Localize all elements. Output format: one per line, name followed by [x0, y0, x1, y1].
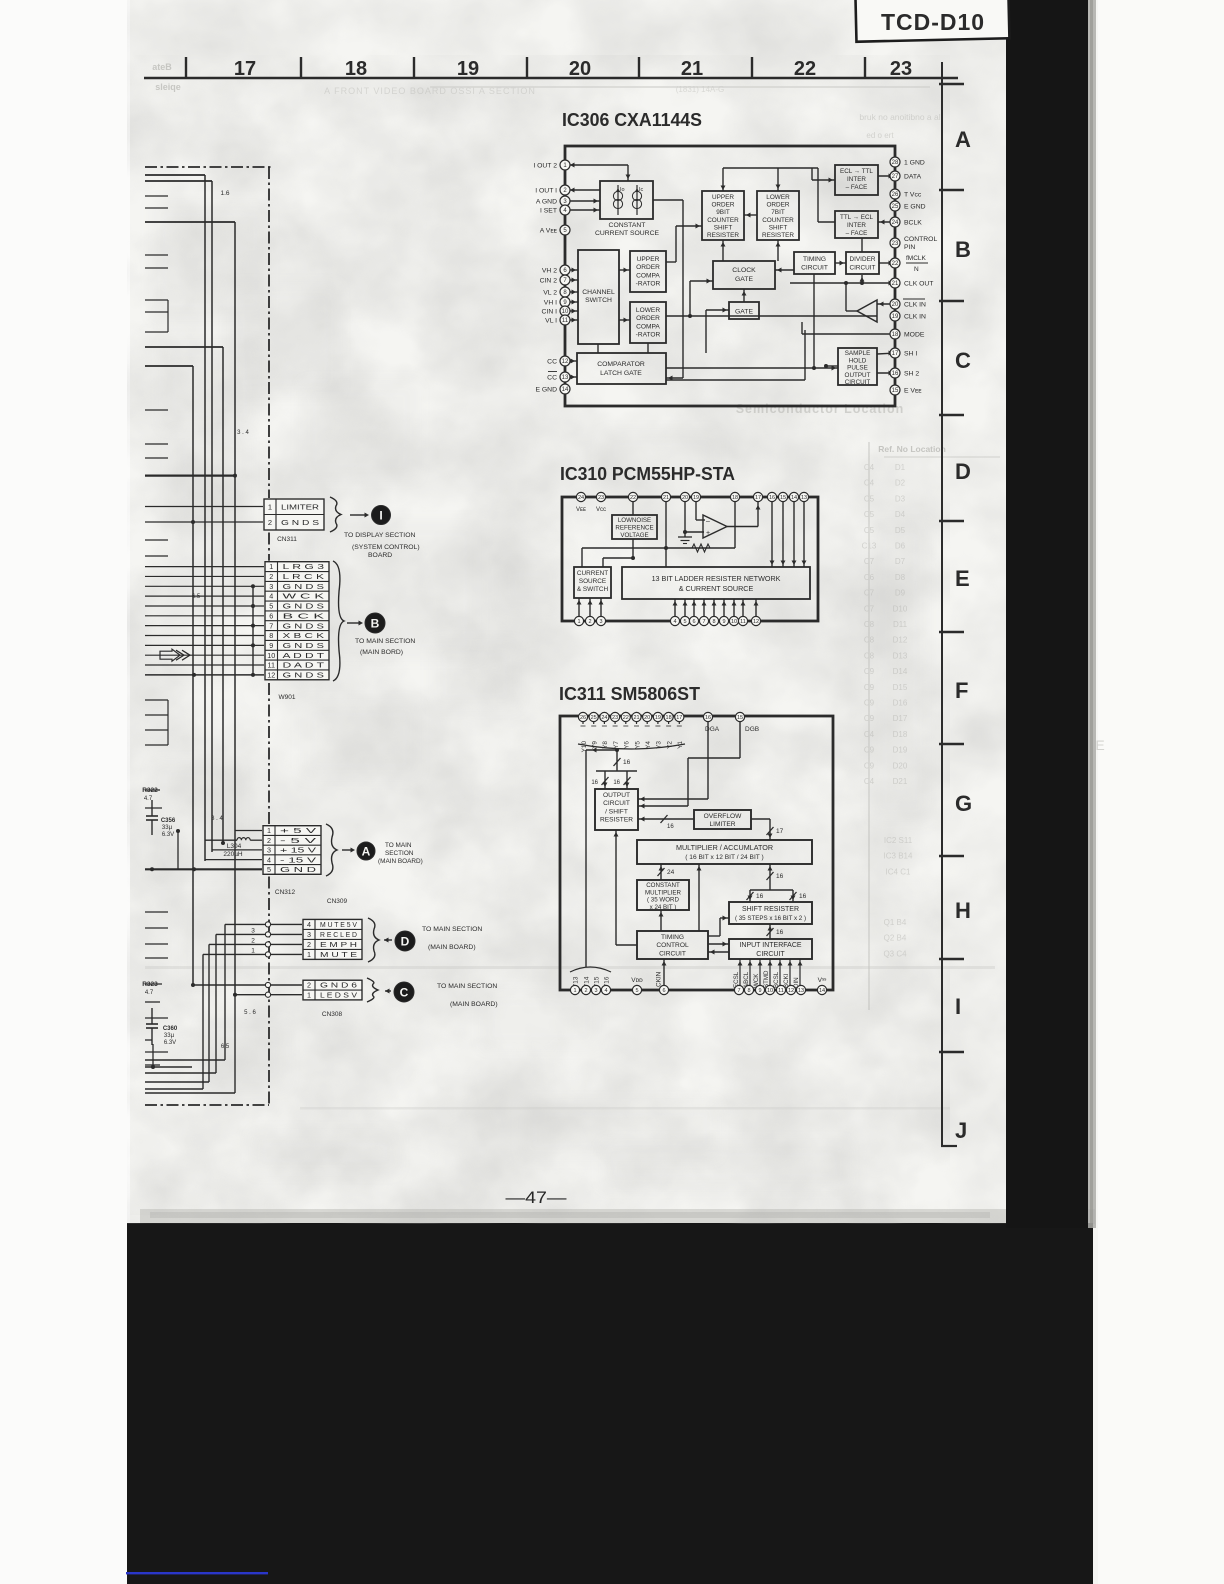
- svg-text:2: 2: [307, 981, 311, 990]
- svg-text:A D D T: A D D T: [283, 651, 326, 660]
- svg-text:J: J: [955, 1118, 967, 1143]
- svg-text:ECL → TTL: ECL → TTL: [840, 168, 873, 175]
- svg-text:1: 1: [269, 562, 273, 571]
- svg-text:16: 16: [776, 873, 784, 880]
- svg-text:TO DISPLAY SECTION: TO DISPLAY SECTION: [344, 532, 415, 539]
- svg-text:23: 23: [890, 58, 912, 80]
- svg-text:( 35 STEPS x 16 BIT x 2 ): ( 35 STEPS x 16 BIT x 2 ): [735, 915, 806, 922]
- svg-text:(MAIN BOARD): (MAIN BOARD): [450, 1001, 498, 1008]
- svg-text:3: 3: [269, 582, 273, 591]
- svg-text:14: 14: [562, 387, 569, 393]
- svg-text:+ 15 V: + 15 V: [280, 846, 316, 855]
- svg-text:G N D S: G N D S: [283, 602, 325, 611]
- svg-text:E M P H: E M P H: [320, 940, 357, 949]
- svg-text:CONSTANT: CONSTANT: [609, 222, 646, 229]
- svg-text:(SYSTEM CONTROL): (SYSTEM CONTROL): [352, 544, 420, 551]
- svg-text:1: 1: [573, 988, 576, 994]
- svg-text:Io: Io: [620, 187, 625, 193]
- svg-text:LIMITER: LIMITER: [281, 502, 320, 511]
- svg-text:L R G 3: L R G 3: [283, 562, 325, 571]
- svg-text:M U T E: M U T E: [320, 950, 357, 959]
- svg-text:CIRCUIT: CIRCUIT: [845, 379, 871, 386]
- svg-text:L304: L304: [227, 843, 242, 850]
- svg-text:H: H: [955, 898, 971, 923]
- svg-text:1: 1: [268, 502, 272, 511]
- svg-text:17: 17: [776, 828, 784, 835]
- svg-text:( 35 WORD: ( 35 WORD: [647, 897, 680, 904]
- svg-text:9: 9: [758, 988, 761, 994]
- svg-text:W901: W901: [279, 694, 296, 701]
- svg-text:23: 23: [612, 715, 618, 721]
- svg-text:TO MAIN SECTION: TO MAIN SECTION: [355, 638, 415, 645]
- svg-text:17: 17: [676, 715, 682, 721]
- svg-text:GATE: GATE: [735, 309, 753, 316]
- svg-text:& SWITCH: & SWITCH: [577, 586, 609, 593]
- svg-text:—47—: —47—: [506, 1188, 567, 1207]
- svg-text:G N D S: G N D S: [281, 518, 319, 527]
- svg-text:+: +: [706, 530, 710, 537]
- svg-text:REFERENCE: REFERENCE: [615, 524, 653, 531]
- svg-text:19: 19: [693, 495, 699, 501]
- svg-text:G N D S: G N D S: [283, 641, 325, 650]
- svg-text:10: 10: [731, 619, 737, 625]
- svg-text:16: 16: [776, 929, 784, 936]
- svg-text:10: 10: [562, 309, 569, 315]
- svg-text:G: G: [955, 791, 972, 816]
- svg-text:/ SHIFT: / SHIFT: [605, 808, 628, 815]
- svg-text:MODE: MODE: [904, 332, 925, 339]
- svg-text:( 16 BIT x 12 BIT / 24 BIT: ( 16 BIT x 12 BIT / 24 BIT ): [685, 854, 763, 861]
- svg-text:CKIN: CKIN: [656, 971, 663, 987]
- svg-text:13 BIT LADDER RESISTER NETW: 13 BIT LADDER RESISTER NETWORK: [652, 574, 781, 583]
- svg-text:20: 20: [644, 715, 650, 721]
- svg-text:1: 1: [307, 950, 311, 959]
- svg-text:Vˢˢ: Vˢˢ: [818, 977, 828, 984]
- svg-text:15: 15: [780, 495, 786, 501]
- svg-text:x 24 BIT ): x 24 BIT ): [650, 904, 677, 911]
- svg-text:23: 23: [892, 241, 899, 247]
- svg-text:9BIT: 9BIT: [716, 209, 730, 216]
- svg-text:3: 3: [307, 930, 311, 939]
- svg-text:I OUT I: I OUT I: [535, 188, 557, 195]
- svg-text:IC306 CXA1144S: IC306 CXA1144S: [562, 109, 702, 130]
- svg-text:LIMITER: LIMITER: [709, 821, 735, 828]
- svg-text:RESISTER: RESISTER: [762, 232, 794, 239]
- svg-text:DGA: DGA: [705, 726, 720, 733]
- svg-text:G N D 6: G N D 6: [320, 981, 357, 990]
- svg-text:18: 18: [345, 58, 367, 80]
- svg-text:SOURCE: SOURCE: [579, 578, 606, 585]
- svg-text:F: F: [955, 678, 968, 703]
- svg-text:3 . 4: 3 . 4: [237, 430, 249, 436]
- svg-text:CIRCUIT: CIRCUIT: [850, 265, 876, 272]
- svg-text:Vᴄᴄ: Vᴄᴄ: [596, 507, 606, 513]
- svg-text:G N D S: G N D S: [283, 670, 325, 679]
- svg-text:TO MAIN: TO MAIN: [385, 842, 412, 849]
- svg-text:16: 16: [667, 824, 674, 830]
- svg-text:11: 11: [740, 619, 746, 625]
- svg-text:24: 24: [892, 220, 899, 226]
- svg-text:9: 9: [722, 619, 725, 625]
- svg-text:9: 9: [269, 641, 273, 650]
- svg-text:24: 24: [601, 715, 607, 721]
- svg-text:3: 3: [599, 619, 602, 625]
- svg-text:14: 14: [791, 495, 797, 501]
- svg-text:SHIFT: SHIFT: [714, 224, 733, 231]
- svg-text:16: 16: [756, 893, 764, 900]
- svg-text:25: 25: [591, 715, 597, 721]
- svg-text:UPPER: UPPER: [637, 256, 660, 263]
- svg-text:N: N: [914, 266, 919, 273]
- svg-text:-RATOR: -RATOR: [636, 332, 661, 339]
- svg-text:11: 11: [268, 661, 275, 670]
- svg-text:Y4: Y4: [645, 741, 652, 749]
- svg-text:LATCH GATE: LATCH GATE: [600, 370, 642, 377]
- svg-text:E GND: E GND: [904, 204, 926, 211]
- svg-text:I SET: I SET: [540, 208, 557, 215]
- svg-text:COUNTER: COUNTER: [707, 217, 739, 224]
- svg-text:SAMPLE: SAMPLE: [845, 350, 871, 357]
- svg-text:8: 8: [747, 988, 750, 994]
- svg-text:1 GND: 1 GND: [904, 160, 925, 167]
- svg-text:E: E: [955, 566, 970, 591]
- svg-text:COUNTER: COUNTER: [762, 217, 794, 224]
- svg-text:16: 16: [613, 780, 620, 786]
- svg-text:UPPER: UPPER: [712, 194, 734, 201]
- svg-text:BCLK: BCLK: [904, 220, 922, 227]
- svg-text:27: 27: [892, 174, 899, 180]
- svg-text:BOARD: BOARD: [368, 552, 392, 559]
- svg-text:SECTION: SECTION: [385, 850, 414, 857]
- svg-text:33µ: 33µ: [164, 1033, 175, 1039]
- svg-text:6: 6: [269, 611, 273, 620]
- svg-text:ORDER: ORDER: [711, 202, 734, 209]
- svg-text:D A D T: D A D T: [283, 661, 326, 670]
- svg-text:20: 20: [569, 58, 591, 80]
- svg-text:X B C K: X B C K: [283, 631, 325, 640]
- svg-text:Y5: Y5: [634, 741, 641, 749]
- svg-text:OUTPUT: OUTPUT: [845, 372, 871, 379]
- svg-text:DATA: DATA: [904, 174, 922, 181]
- svg-text:E GND: E GND: [535, 387, 557, 394]
- svg-text:14: 14: [819, 988, 825, 994]
- svg-text:–: –: [706, 518, 710, 525]
- svg-text:Ic: Ic: [639, 187, 644, 193]
- svg-text:-RATOR: -RATOR: [636, 281, 661, 288]
- svg-text:VH 2: VH 2: [542, 268, 557, 275]
- svg-text:24: 24: [667, 869, 675, 876]
- svg-text:INTER: INTER: [847, 222, 866, 229]
- svg-text:12: 12: [267, 670, 275, 679]
- svg-text:17: 17: [755, 495, 761, 501]
- svg-text:3: 3: [251, 927, 255, 934]
- svg-text:18: 18: [732, 495, 738, 501]
- svg-text:1.6: 1.6: [220, 190, 229, 197]
- svg-text:SH 2: SH 2: [904, 371, 919, 378]
- svg-text:21: 21: [681, 58, 703, 80]
- svg-text:2: 2: [268, 518, 272, 527]
- svg-text:TO MAIN SECTION: TO MAIN SECTION: [437, 983, 497, 990]
- svg-text:CLOCK: CLOCK: [732, 267, 756, 274]
- svg-text:IC311 SM5806ST: IC311 SM5806ST: [559, 683, 701, 704]
- svg-text:(MAIN BOARD): (MAIN BOARD): [378, 858, 423, 865]
- svg-text:TIMING: TIMING: [661, 934, 684, 941]
- svg-text:22: 22: [794, 58, 816, 80]
- svg-text:7: 7: [737, 988, 740, 994]
- svg-text:3 . 4: 3 . 4: [211, 816, 223, 822]
- svg-text:INTER: INTER: [847, 176, 866, 183]
- svg-text:1: 1: [251, 947, 255, 954]
- svg-text:28: 28: [892, 160, 899, 166]
- svg-text:17: 17: [234, 58, 256, 80]
- svg-text:COMPARATOR: COMPARATOR: [597, 361, 645, 368]
- svg-text:16: 16: [799, 893, 807, 900]
- svg-text:10: 10: [767, 988, 773, 994]
- svg-text:15: 15: [737, 715, 743, 721]
- svg-text:G N D S: G N D S: [283, 621, 325, 630]
- svg-text:33µ: 33µ: [162, 825, 173, 831]
- svg-text:VOLTAGE: VOLTAGE: [620, 532, 648, 539]
- svg-text:CN312: CN312: [275, 889, 296, 896]
- svg-text:- 5 V: - 5 V: [280, 836, 316, 845]
- svg-text:10: 10: [267, 651, 275, 660]
- svg-text:15: 15: [892, 388, 899, 394]
- svg-text:CN311: CN311: [277, 536, 297, 543]
- svg-text:19: 19: [655, 715, 661, 721]
- svg-text:6: 6: [662, 988, 665, 994]
- svg-text:11: 11: [562, 318, 569, 324]
- svg-text:6.3V: 6.3V: [162, 832, 174, 838]
- svg-text:2: 2: [251, 937, 255, 944]
- svg-text:TIMING: TIMING: [803, 256, 826, 263]
- svg-text:11: 11: [778, 988, 784, 994]
- svg-text:VH I: VH I: [544, 300, 557, 307]
- svg-text:CONTROL: CONTROL: [656, 942, 689, 949]
- svg-text:RESISTER: RESISTER: [707, 232, 739, 239]
- svg-text:G N D: G N D: [280, 865, 316, 874]
- svg-text:(MAIN BORD): (MAIN BORD): [360, 649, 403, 656]
- svg-text:ORDER: ORDER: [636, 264, 660, 271]
- svg-text:TTL → ECL: TTL → ECL: [840, 214, 874, 221]
- svg-text:8: 8: [712, 619, 715, 625]
- svg-text:SH I: SH I: [904, 351, 917, 358]
- svg-text:6.5: 6.5: [221, 1044, 230, 1050]
- svg-text:CONTROL: CONTROL: [904, 236, 937, 243]
- svg-text:7BIT: 7BIT: [771, 209, 785, 216]
- svg-text:CURRENT: CURRENT: [577, 570, 608, 577]
- svg-text:2: 2: [588, 619, 591, 625]
- svg-text:RESISTER: RESISTER: [600, 817, 633, 824]
- svg-text:5: 5: [267, 865, 271, 874]
- svg-text:LOWNOISE: LOWNOISE: [618, 517, 651, 524]
- svg-text:2: 2: [584, 988, 587, 994]
- svg-text:16: 16: [705, 715, 711, 721]
- svg-text:E: E: [1095, 737, 1104, 753]
- svg-text:12: 12: [753, 619, 759, 625]
- svg-text:DGB: DGB: [745, 726, 759, 733]
- svg-text:2: 2: [307, 940, 311, 949]
- svg-text:INPUT INTERFACE: INPUT INTERFACE: [739, 942, 801, 949]
- svg-text:CN308: CN308: [322, 1011, 343, 1018]
- svg-text:PIN: PIN: [904, 244, 915, 251]
- svg-text:LOWER: LOWER: [766, 194, 790, 201]
- svg-text:MULTIPLIER: MULTIPLIER: [645, 889, 682, 896]
- svg-text:CIN I: CIN I: [542, 309, 558, 316]
- svg-text:16: 16: [892, 371, 899, 377]
- svg-text:VL 2: VL 2: [543, 290, 557, 297]
- svg-text:OVERFLOW: OVERFLOW: [704, 813, 743, 820]
- svg-text:C: C: [400, 985, 409, 999]
- svg-text:D: D: [955, 459, 971, 484]
- svg-text:TCD-D10: TCD-D10: [881, 9, 985, 35]
- svg-text:CIRCUIT: CIRCUIT: [659, 950, 686, 957]
- svg-text:B: B: [371, 616, 380, 630]
- svg-text:22: 22: [892, 261, 899, 267]
- svg-text:7: 7: [269, 621, 273, 630]
- svg-text:E Vᴇᴇ: E Vᴇᴇ: [904, 388, 922, 395]
- svg-text:12: 12: [562, 359, 569, 365]
- svg-text:SHIFT: SHIFT: [769, 224, 788, 231]
- svg-text:220µH: 220µH: [223, 851, 243, 858]
- svg-text:SWITCH: SWITCH: [585, 297, 612, 304]
- svg-text:G N D S: G N D S: [283, 582, 325, 591]
- svg-text:1: 1: [267, 826, 271, 835]
- svg-text:4: 4: [673, 619, 676, 625]
- svg-text:D: D: [401, 934, 410, 948]
- svg-text:T Vᴄᴄ: T Vᴄᴄ: [904, 192, 922, 199]
- svg-text:3: 3: [267, 846, 271, 855]
- svg-text:19: 19: [892, 314, 899, 320]
- svg-text:HOLD: HOLD: [849, 357, 867, 364]
- svg-text:CONSTANT: CONSTANT: [646, 882, 680, 889]
- svg-text:CIRCUIT: CIRCUIT: [603, 800, 630, 807]
- svg-text:CURRENT SOURCE: CURRENT SOURCE: [595, 230, 660, 237]
- svg-text:ORDER: ORDER: [636, 315, 660, 322]
- svg-text:W C K: W C K: [283, 592, 325, 601]
- svg-text:CIRCUIT: CIRCUIT: [801, 265, 828, 272]
- svg-text:5 . 6: 5 . 6: [244, 1010, 256, 1016]
- svg-text:5: 5: [269, 602, 273, 611]
- svg-text:I: I: [379, 508, 382, 522]
- svg-text:(MAIN BOARD): (MAIN BOARD): [428, 944, 476, 951]
- svg-text:CLK IN: CLK IN: [904, 302, 926, 309]
- svg-text:16: 16: [623, 759, 631, 766]
- svg-text:20: 20: [892, 302, 899, 308]
- svg-text:4: 4: [267, 855, 271, 864]
- svg-text:12: 12: [788, 988, 794, 994]
- svg-text:R E C L E D: R E C L E D: [320, 930, 357, 939]
- svg-text:DIVIDER: DIVIDER: [850, 256, 876, 263]
- svg-text:CN309: CN309: [327, 898, 348, 905]
- svg-text:24: 24: [578, 495, 584, 501]
- svg-text:C360: C360: [163, 1026, 178, 1032]
- svg-text:18: 18: [666, 715, 672, 721]
- svg-text:A GND: A GND: [536, 199, 557, 206]
- svg-text:I OUT 2: I OUT 2: [533, 163, 557, 170]
- svg-text:M U T E 5 V: M U T E 5 V: [320, 920, 357, 929]
- svg-text:IC310 PCM55HP-STA: IC310 PCM55HP-STA: [560, 463, 735, 484]
- svg-text:SHIFT RESISTER: SHIFT RESISTER: [742, 906, 799, 913]
- svg-text:I: I: [955, 994, 961, 1019]
- svg-text:OUTPUT: OUTPUT: [603, 792, 630, 799]
- svg-text:16: 16: [591, 780, 598, 786]
- svg-text:22: 22: [630, 495, 636, 501]
- svg-text:7: 7: [702, 619, 705, 625]
- svg-text:13: 13: [798, 988, 804, 994]
- svg-text:CC: CC: [547, 375, 557, 382]
- svg-text:2: 2: [269, 572, 273, 581]
- svg-text:6.5: 6.5: [192, 594, 201, 600]
- svg-text:L R C K: L R C K: [283, 572, 325, 581]
- svg-text:2: 2: [267, 836, 271, 845]
- svg-text:6.3V: 6.3V: [164, 1040, 176, 1046]
- svg-text:4.7: 4.7: [144, 796, 153, 802]
- svg-text:3: 3: [594, 988, 597, 994]
- svg-text:22: 22: [623, 715, 629, 721]
- svg-text:B: B: [955, 237, 971, 262]
- svg-text:18: 18: [892, 332, 899, 338]
- svg-text:13: 13: [801, 495, 807, 501]
- svg-text:Vᴇᴇ: Vᴇᴇ: [576, 507, 586, 513]
- svg-text:20: 20: [682, 495, 688, 501]
- svg-text:PULSE: PULSE: [847, 365, 868, 372]
- svg-text:23: 23: [598, 495, 604, 501]
- svg-text:5: 5: [683, 619, 686, 625]
- svg-text:TO MAIN SECTION: TO MAIN SECTION: [422, 926, 482, 933]
- svg-text:CLK OUT: CLK OUT: [904, 281, 933, 288]
- svg-text:21: 21: [633, 715, 639, 721]
- svg-text:- 15 V: - 15 V: [280, 855, 316, 864]
- svg-text:B C K: B C K: [283, 611, 325, 620]
- svg-text:1: 1: [577, 619, 580, 625]
- svg-text:26: 26: [892, 192, 899, 198]
- svg-text:C: C: [955, 348, 971, 373]
- svg-text:CLK IN: CLK IN: [904, 314, 926, 321]
- svg-text:& CURRENT SOURCE: & CURRENT SOURCE: [679, 584, 754, 593]
- svg-text:13: 13: [562, 375, 569, 381]
- svg-text:5: 5: [635, 988, 638, 994]
- svg-text:ORDER: ORDER: [766, 202, 789, 209]
- svg-text:L E D S V: L E D S V: [320, 991, 357, 1000]
- svg-text:6: 6: [692, 619, 695, 625]
- svg-text:MULTIPLIER / ACCUMLATOR: MULTIPLIER / ACCUMLATOR: [676, 843, 773, 852]
- svg-text:Y7: Y7: [613, 741, 620, 749]
- svg-text:26: 26: [580, 715, 586, 721]
- svg-text:17: 17: [892, 351, 899, 357]
- svg-text:COMPA: COMPA: [636, 272, 660, 279]
- svg-text:4.7: 4.7: [145, 990, 154, 996]
- svg-text:4: 4: [307, 920, 311, 929]
- svg-text:21: 21: [892, 281, 899, 287]
- svg-text:4: 4: [269, 592, 273, 601]
- svg-text:8: 8: [269, 631, 273, 640]
- svg-text:– FACE: – FACE: [846, 184, 868, 191]
- svg-text:VL I: VL I: [545, 318, 557, 325]
- svg-text:Y2: Y2: [666, 741, 673, 749]
- svg-text:4: 4: [604, 988, 607, 994]
- svg-text:A Vᴇᴇ: A Vᴇᴇ: [540, 228, 558, 235]
- svg-text:25: 25: [892, 204, 899, 210]
- svg-text:Vᴅᴅ: Vᴅᴅ: [631, 977, 643, 984]
- svg-text:GATE: GATE: [735, 276, 753, 283]
- svg-text:Y6: Y6: [624, 741, 631, 749]
- svg-text:fMCLK: fMCLK: [906, 255, 927, 262]
- svg-text:CIRCUIT: CIRCUIT: [756, 951, 785, 958]
- svg-text:A: A: [362, 844, 371, 858]
- svg-text:C356: C356: [161, 818, 176, 824]
- svg-text:1: 1: [307, 991, 311, 1000]
- svg-text:COMPA: COMPA: [636, 323, 660, 330]
